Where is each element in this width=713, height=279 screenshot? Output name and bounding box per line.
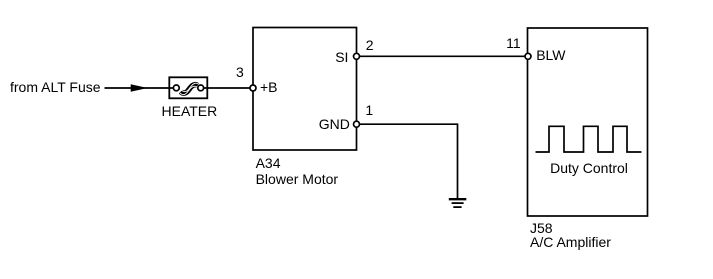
duty control square-wave symbol <box>536 126 642 152</box>
wire from ALT Fuse feed (horizontal, with arrowhead) <box>105 84 177 92</box>
pin 3 terminal +B (circle) <box>250 85 256 91</box>
pin name GND <box>319 117 350 131</box>
component A34 Blower Motor (box) <box>253 28 357 151</box>
pin name +B <box>260 80 278 94</box>
net label: from ALT Fuse <box>10 80 101 94</box>
reference designator A34 <box>256 156 281 170</box>
reference designator J58 <box>530 221 553 235</box>
label Duty Control <box>550 161 628 175</box>
wire GND to ground <box>360 124 458 198</box>
pin 2 terminal SI (circle) <box>354 53 360 59</box>
wire fuse to +B pin <box>204 87 250 89</box>
component J58 A/C Amplifier (box) <box>528 28 648 216</box>
pin number 11 <box>506 36 521 50</box>
pin 11 terminal BLW (circle) <box>525 53 531 59</box>
pin name SI <box>335 50 348 64</box>
pin number 1 <box>365 103 373 117</box>
component name Blower Motor <box>256 172 338 186</box>
wire SI to BLW (pin2 to pin11) <box>360 55 526 57</box>
fuse HEATER (fusible link symbol) <box>169 77 207 98</box>
pin number 2 <box>366 38 374 52</box>
net name BLW <box>536 48 565 62</box>
pin number 3 <box>236 65 244 79</box>
value label HEATER <box>162 104 218 118</box>
component name A/C Amplifier <box>530 235 611 249</box>
ground symbol <box>449 199 467 207</box>
pin 1 terminal GND (circle) <box>354 121 360 127</box>
